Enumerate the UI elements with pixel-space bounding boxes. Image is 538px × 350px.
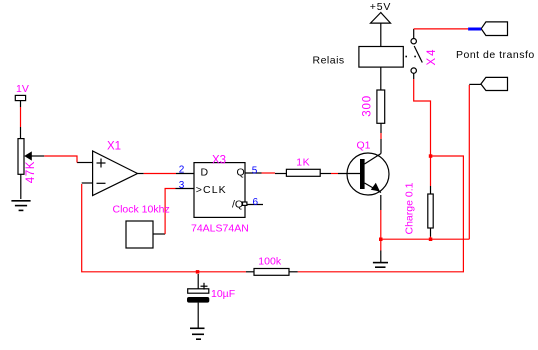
svg-text:100k: 100k: [258, 256, 282, 268]
svg-text:+5V: +5V: [370, 1, 391, 13]
svg-text:/Q: /Q: [232, 199, 243, 211]
svg-text:47K: 47K: [25, 161, 37, 183]
svg-text:Q: Q: [237, 167, 245, 179]
svg-text:2: 2: [179, 165, 185, 176]
svg-text:5: 5: [252, 166, 258, 177]
svg-text:300: 300: [362, 95, 374, 117]
svg-text:Pont de transfo: Pont de transfo: [456, 49, 535, 61]
svg-text:6: 6: [253, 197, 259, 208]
svg-text:1V: 1V: [16, 83, 29, 95]
svg-text:Charge 0.1: Charge 0.1: [404, 182, 416, 234]
svg-text:74ALS74AN: 74ALS74AN: [191, 223, 249, 235]
svg-text:>CLK: >CLK: [196, 184, 227, 196]
svg-text:X4: X4: [426, 47, 438, 65]
svg-text:X1: X1: [107, 141, 121, 153]
svg-text:Relais: Relais: [313, 55, 345, 67]
svg-text:X3: X3: [212, 155, 226, 167]
svg-text:D: D: [201, 167, 209, 179]
svg-text:Q1: Q1: [357, 140, 371, 152]
svg-text:3: 3: [179, 180, 185, 191]
svg-text:10µF: 10µF: [211, 288, 235, 300]
svg-text:1K: 1K: [296, 157, 310, 169]
svg-text:Clock 10khz: Clock 10khz: [113, 204, 170, 216]
